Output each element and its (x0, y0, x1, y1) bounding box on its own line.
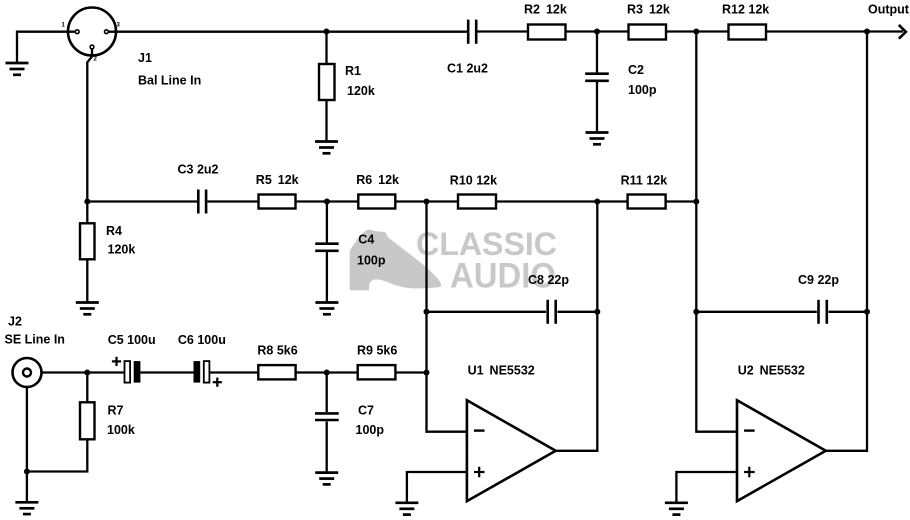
node: R1 top junction (324, 29, 330, 35)
wire: C8 right (558, 311, 598, 313)
node: output junction (864, 29, 870, 35)
capacitor C5 (electrolytic) (112, 357, 140, 383)
capacitor C7 (315, 413, 339, 420)
svg-text:C6 100u: C6 100u (178, 333, 226, 347)
wire: R9 to node A (395, 371, 426, 373)
wire: C7 bottom to ground (326, 422, 328, 473)
ground (U1 non-inverting) (395, 503, 418, 515)
capacitor C1 (468, 20, 476, 44)
resistor R11 (628, 195, 666, 209)
connector J1 XLR Bal Line In (68, 8, 116, 56)
resistor R6 (358, 195, 395, 209)
capacitor C6 (electrolytic) (194, 361, 222, 387)
wire: XLR pin 3 to C1 (109, 31, 468, 33)
node: J2/R7 junction (84, 370, 90, 376)
ground (R4) (76, 303, 99, 315)
svg-text:C9 22p: C9 22p (798, 273, 839, 287)
svg-text:R12 12k: R12 12k (722, 3, 769, 17)
node: C9 left junction (693, 309, 699, 315)
wire: R10 to R11 (496, 200, 628, 202)
ground (R1) (315, 142, 338, 154)
wire: R5 to R6 (296, 200, 359, 202)
svg-text:Bal Line In: Bal Line In (138, 74, 201, 88)
svg-text:U1 NE5532: U1 NE5532 (468, 364, 535, 378)
resistor R5 (259, 195, 296, 209)
wire: U1 output vertical (556, 202, 598, 451)
svg-text:R7: R7 (108, 404, 124, 418)
wire: C7 top (326, 373, 328, 413)
wire: R12 to output arrow (766, 30, 903, 32)
resistor R7 (80, 402, 95, 439)
node: R6/R10 junction (424, 199, 430, 205)
wire: U2 inverting input vertical (node B) (696, 32, 737, 432)
wire: J2 to C5 (42, 371, 125, 373)
wire: C9 left (696, 311, 817, 313)
wire: R7 bottom to J2 ground (27, 439, 87, 471)
svg-text:R9 5k6: R9 5k6 (357, 344, 397, 358)
capacitor C8 (548, 300, 556, 324)
wire: C2 bottom to ground (596, 82, 598, 132)
wire: C9 right (829, 311, 868, 313)
ground (XLR pin 1) (6, 63, 29, 75)
svg-text:C3 2u2: C3 2u2 (178, 163, 219, 177)
capacitor C3 (198, 190, 206, 214)
capacitor C4 (315, 244, 338, 251)
wire: R2 to R3 (566, 30, 629, 32)
capacitor C2 (585, 74, 609, 81)
resistor R12 (729, 25, 767, 40)
wire: U1 non-inverting input to ground (407, 472, 467, 503)
ground (J2) (15, 502, 38, 514)
resistor R4 (80, 223, 95, 259)
wire: C1 to R2 (477, 30, 528, 32)
svg-text:C4: C4 (358, 233, 374, 247)
wire: C3 to R5 (208, 200, 259, 202)
svg-text:R8 5k6: R8 5k6 (257, 344, 297, 358)
wire: U1 inverting input vertical (node A) (427, 202, 467, 432)
op-amp U1 (467, 400, 556, 501)
svg-text:100k: 100k (107, 423, 135, 437)
wire: C5 to C6 (140, 371, 193, 373)
node: C8 left junction (424, 309, 430, 315)
svg-text:R10 12k: R10 12k (450, 174, 497, 188)
node: R7 bottom junction (24, 469, 30, 475)
resistor R1 (319, 64, 335, 100)
wire: U2 output vertical to output node (826, 32, 867, 451)
node: R4 top junction (84, 199, 90, 205)
wire: R6 to R10 (395, 200, 458, 202)
node: R9 right junction (424, 370, 430, 376)
op-amp U2 (737, 400, 826, 501)
svg-text:J2: J2 (8, 315, 22, 329)
wire: R1 bottom to ground (325, 100, 327, 141)
ground (C7) (315, 473, 338, 485)
node: C4 top junction (324, 199, 330, 205)
svg-text:R11 12k: R11 12k (621, 174, 668, 188)
wire: R7 top (86, 373, 88, 403)
svg-text:C2: C2 (628, 63, 644, 77)
resistor R8 (258, 365, 295, 379)
node: C9 right junction (864, 309, 870, 315)
wire: R11 to U2 input node (666, 200, 697, 202)
wire: R8 to R9 (296, 371, 358, 373)
wire: R4 top (86, 202, 88, 224)
svg-text:R1: R1 (345, 64, 361, 78)
connector J2 SE Line In (13, 358, 42, 387)
svg-text:R6 12k: R6 12k (356, 173, 399, 187)
svg-text:J1: J1 (138, 51, 152, 65)
node: R3/R12 junction (693, 29, 699, 35)
watermark logo swoosh (350, 230, 442, 291)
node: R11 right junction (693, 199, 699, 205)
svg-text:R2 12k: R2 12k (524, 3, 567, 17)
resistor R9 (358, 365, 396, 379)
wire: output arrowhead (899, 25, 906, 39)
node: C2 top junction (594, 29, 600, 35)
ground (C2) (586, 133, 609, 145)
wire: XLR pin 2 down to row 2 (87, 49, 92, 201)
wire: R1 top (325, 32, 327, 65)
resistor R3 (629, 25, 667, 40)
node: C8 right junction (594, 309, 600, 315)
svg-text:C8 22p: C8 22p (528, 273, 569, 287)
svg-text:SE Line In: SE Line In (5, 333, 65, 347)
resistor R2 (528, 25, 566, 40)
svg-text:C1 2u2: C1 2u2 (447, 62, 488, 76)
ground (U2 non-inverting) (665, 503, 688, 515)
svg-text:C7: C7 (358, 404, 374, 418)
svg-text:R5 12k: R5 12k (256, 173, 299, 187)
wire: R4 bottom to ground (86, 259, 88, 302)
wire: C2 top (596, 32, 598, 73)
ground (C4) (315, 303, 338, 315)
svg-text:120k: 120k (347, 84, 375, 98)
svg-text:Output: Output (868, 3, 910, 17)
svg-text:100p: 100p (628, 83, 657, 97)
wire: C4 bottom to ground (326, 252, 328, 302)
wire: J2 sleeve down to ground (26, 387, 28, 502)
svg-text:120k: 120k (108, 243, 136, 257)
svg-text:C5 100u: C5 100u (108, 333, 156, 347)
wire: C8 left (427, 311, 547, 313)
wire: C6 to R8 (209, 371, 258, 373)
capacitor C9 (819, 300, 827, 324)
svg-text:100p: 100p (356, 423, 385, 437)
resistor R10 (458, 195, 496, 209)
wire: row2 junction to C3 (87, 200, 197, 202)
svg-text:R4: R4 (106, 224, 122, 238)
wire: U2 non-inverting input to ground (676, 472, 737, 503)
node: C7 top junction (324, 370, 330, 376)
wire: R3 to R12 (666, 30, 729, 32)
node: R10/R11 junction (594, 199, 600, 205)
svg-text:100p: 100p (357, 254, 386, 268)
svg-text:U2 NE5532: U2 NE5532 (738, 364, 805, 378)
svg-text:R3 12k: R3 12k (627, 3, 670, 17)
wire: C4 top (326, 202, 328, 243)
wire: ground stub to XLR pin 1 (17, 32, 75, 63)
